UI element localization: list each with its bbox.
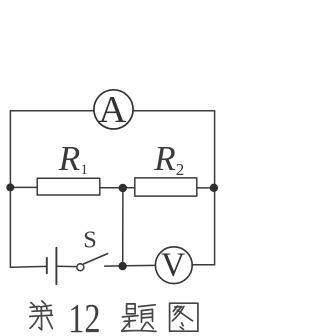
- svg-text:A: A: [98, 89, 126, 131]
- svg-text:V: V: [161, 247, 185, 284]
- svg-text:1: 1: [81, 162, 88, 178]
- svg-text:12: 12: [68, 295, 100, 336]
- svg-text:R: R: [58, 139, 80, 178]
- svg-text:2: 2: [176, 160, 185, 179]
- svg-text:R: R: [153, 139, 175, 178]
- svg-text:S: S: [83, 227, 97, 254]
